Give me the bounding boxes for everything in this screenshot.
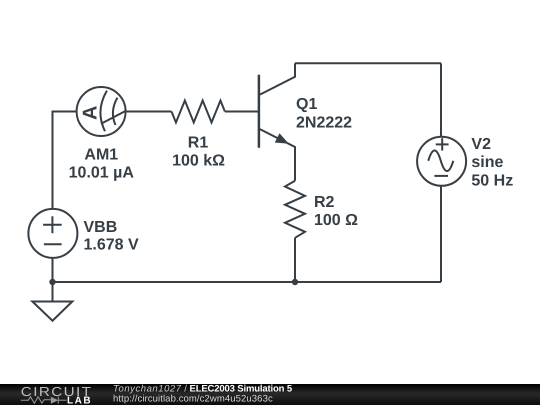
- wire: [295, 62, 441, 64]
- svg-text:A: A: [79, 106, 101, 120]
- resistor R2: [285, 181, 305, 238]
- wire: [52, 282, 54, 302]
- svg-text:sine: sine: [471, 154, 503, 171]
- svg-text:Q1: Q1: [296, 96, 317, 113]
- svg-text:50 Hz: 50 Hz: [471, 173, 513, 190]
- resistor R1: [172, 101, 225, 123]
- wire: [294, 238, 296, 282]
- voltage source VBB: [28, 209, 77, 258]
- ground: [32, 302, 72, 321]
- svg-text:R1: R1: [188, 134, 209, 151]
- node junction ground: [49, 279, 55, 285]
- CircuitLab logo schematic: [21, 397, 67, 404]
- svg-text:AM1: AM1: [84, 147, 118, 164]
- footer bar: [0, 384, 540, 405]
- node junction R2-bottom: [292, 279, 298, 285]
- svg-text:2N2222: 2N2222: [296, 114, 352, 131]
- wire: [126, 111, 172, 113]
- svg-text:10.01 µA: 10.01 µA: [69, 164, 135, 181]
- voltage source V2: [417, 137, 466, 186]
- wire: [225, 111, 258, 113]
- svg-text:100 kΩ: 100 kΩ: [172, 152, 225, 169]
- svg-text:VBB: VBB: [84, 219, 118, 236]
- wire: [440, 186, 442, 282]
- ammeter AM1: [77, 87, 126, 136]
- wire: [440, 63, 442, 137]
- svg-text:100 Ω: 100 Ω: [314, 212, 358, 229]
- svg-text:R2: R2: [314, 194, 335, 211]
- svg-text:LAB: LAB: [67, 396, 92, 405]
- wire: [53, 112, 77, 210]
- svg-text:V2: V2: [471, 136, 491, 153]
- transistor Q1: [259, 63, 295, 180]
- wire: [52, 258, 54, 282]
- svg-text:1.678 V: 1.678 V: [84, 237, 139, 254]
- svg-text:http://circuitlab.com/c2wm4u52: http://circuitlab.com/c2wm4u52u363c: [113, 394, 273, 405]
- wire: [53, 281, 442, 283]
